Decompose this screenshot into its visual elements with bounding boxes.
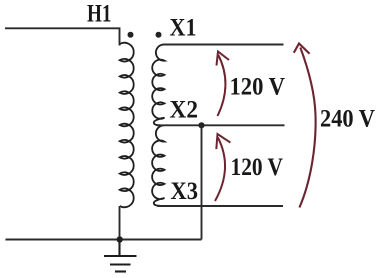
transformer secondary winding lower half X2-X3 [152, 125, 164, 205]
svg-text:120 V: 120 V [231, 154, 284, 181]
polarity dot primary [128, 32, 134, 38]
arrow 120V lower [215, 134, 230, 201]
wire X1 to right [163, 44, 284, 46]
arrow 240V [294, 44, 316, 208]
wire primary bottom to ground node [119, 206, 121, 240]
node X2 junction dot [198, 122, 204, 128]
transformer primary winding H1 [120, 43, 134, 208]
wire X2 to right [157, 124, 285, 126]
transformer secondary winding upper half X1-X2 [152, 45, 164, 126]
svg-text:240 V: 240 V [320, 106, 375, 133]
wire top-left input to H1 [5, 28, 120, 45]
svg-text:X2: X2 [170, 97, 199, 124]
svg-text:120 V: 120 V [230, 74, 286, 101]
svg-text:H1: H1 [87, 1, 112, 28]
arrow 120V upper [217, 52, 230, 117]
ground [104, 240, 137, 272]
wire X2 neutral drop [201, 125, 203, 239]
polarity dot secondary [156, 32, 162, 38]
svg-text:X1: X1 [170, 15, 197, 42]
wire X3 to right [158, 205, 284, 207]
node ground junction dot [117, 236, 123, 242]
wire bottom neutral to ground [6, 239, 202, 241]
svg-text:X3: X3 [171, 178, 199, 205]
